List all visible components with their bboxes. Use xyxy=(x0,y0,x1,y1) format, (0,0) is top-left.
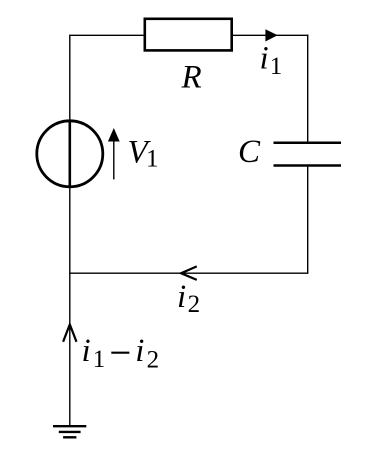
voltage source diameter line xyxy=(69,121,72,188)
svg-text:i: i xyxy=(177,279,186,315)
svg-text:i: i xyxy=(82,333,91,369)
svg-text:1: 1 xyxy=(93,346,106,373)
svg-text:1: 1 xyxy=(146,146,159,173)
capacitor C bottom plate xyxy=(274,164,342,167)
wire top-right (resistor to top-right corner) xyxy=(233,34,309,36)
ground xyxy=(53,426,86,437)
wire right upper (corner down to capacitor) xyxy=(307,35,309,143)
wire right lower (capacitor to bottom-right corner) xyxy=(307,166,309,274)
svg-text:R: R xyxy=(181,60,202,96)
capacitor C top plate xyxy=(274,142,342,145)
svg-text:i: i xyxy=(135,333,144,369)
current arrow i2 (open arrowhead on bottom wire, pointing left) xyxy=(181,266,197,280)
resistor R xyxy=(145,19,232,51)
wire left lower (source bottom to ground) xyxy=(69,187,71,425)
current arrow i1-i2 (open arrowhead on left wire, pointing up) xyxy=(63,324,76,341)
svg-text:C: C xyxy=(238,134,261,170)
svg-text:2: 2 xyxy=(188,291,201,318)
current arrow i1 (filled arrowhead on top wire) xyxy=(265,29,277,41)
svg-text:i: i xyxy=(260,41,269,77)
wire bottom (bottom-right corner to left node) xyxy=(70,272,309,274)
V1 polarity arrow (up) xyxy=(113,139,115,179)
wire left upper (corner down to source top) xyxy=(69,35,71,121)
wire top-left (node to resistor) xyxy=(70,34,144,36)
svg-text:1: 1 xyxy=(270,53,283,80)
svg-text:2: 2 xyxy=(147,346,160,373)
voltage source V1 (circle) xyxy=(37,121,103,187)
